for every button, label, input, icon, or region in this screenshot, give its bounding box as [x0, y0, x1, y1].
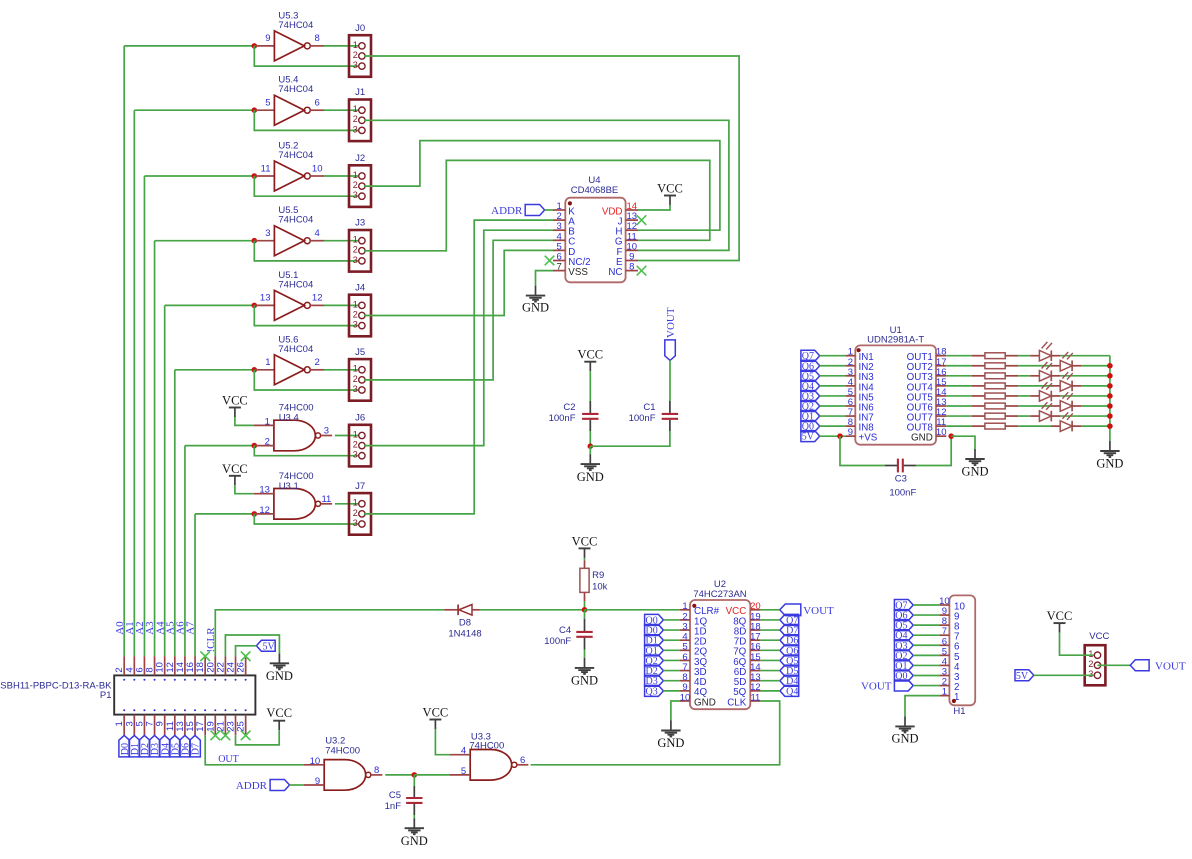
svg-text:J3: J3 [355, 218, 365, 229]
svg-text:D8: D8 [459, 618, 471, 629]
svg-text:U3.1: U3.1 [279, 481, 299, 492]
junction below C2 [588, 443, 594, 449]
svg-text:3: 3 [353, 60, 358, 70]
label Q0 at U2 pin 2 [645, 614, 664, 625]
svg-text:C3: C3 [895, 474, 907, 485]
svg-text:OUT: OUT [218, 754, 239, 765]
wire Q5 to H1 pin 8 [913, 624, 939, 626]
svg-text:GND: GND [657, 736, 684, 750]
wire Q3 to U1 pin 5 [820, 395, 846, 397]
wire VOUT to H1 pin 2 [913, 685, 939, 687]
IC U2 (74HC273AN) [690, 600, 750, 709]
svg-text:10: 10 [936, 427, 947, 438]
label Q5 at H1 pin 8 [894, 620, 913, 631]
svg-text:3: 3 [353, 255, 358, 265]
svg-text:74HC04: 74HC04 [278, 84, 313, 95]
svg-text:C2: C2 [563, 402, 575, 413]
label Q5 at U1 pin 3 [801, 370, 820, 381]
power VCC for U3.3 [429, 719, 441, 721]
svg-text:1: 1 [353, 235, 358, 245]
svg-text:74HC00: 74HC00 [325, 746, 360, 757]
svg-text:H1: H1 [953, 706, 965, 717]
wire net A3 (P1 pin 8 to U5.5 input) [154, 241, 156, 657]
svg-text:2: 2 [353, 50, 358, 60]
svg-text:VOUT: VOUT [1155, 660, 1186, 672]
junction on cathode rail [1107, 403, 1113, 409]
wire Q3 to H1 pin 6 [913, 644, 939, 646]
svg-text:2: 2 [353, 245, 358, 255]
connector J2 [349, 165, 371, 207]
label D1 at P1 pin 3 [129, 735, 140, 757]
wire U1 OUT5 to resistor [946, 395, 971, 397]
svg-text:10: 10 [680, 692, 691, 703]
resistor (row 3) [972, 375, 985, 377]
ground at cathode rail [1109, 441, 1111, 451]
junction node A3 [252, 238, 258, 244]
junction at U1 pin 10 (GND) [948, 433, 954, 439]
wire net J1-2 (J1 pin 2 to U4 pin 10) [364, 120, 729, 250]
wire A5 feedback to J5 pin 3 [254, 370, 358, 390]
svg-text:74HC273AN: 74HC273AN [693, 589, 746, 600]
svg-text:4: 4 [461, 746, 466, 757]
svg-text:12: 12 [312, 293, 323, 304]
wire connector pin 2 to VOUT [1098, 664, 1131, 666]
svg-text:5V: 5V [262, 641, 275, 652]
svg-text:VCC: VCC [423, 706, 449, 720]
connector P1 (SBH11-PBPC-D13-RA-BK) [114, 675, 255, 714]
wire D2 to U2 pin 7 [663, 670, 680, 672]
svg-text:1N4148: 1N4148 [448, 629, 481, 640]
svg-text:VOUT: VOUT [803, 605, 834, 617]
wire Q7 to U1 pin 1 [820, 355, 846, 357]
svg-text:3: 3 [353, 518, 358, 528]
wire LED to cathode rail [1081, 425, 1110, 427]
wire LED cathode rail [1109, 356, 1111, 441]
wire net J7-2 (J7 pin 2 to U4 pin 2) [364, 220, 553, 514]
label Q6 at U2 pin 16 [780, 645, 799, 656]
svg-text:NC: NC [608, 267, 622, 278]
label Q1 at U1 pin 7 [801, 411, 820, 422]
wire Q6 to U1 pin 2 [820, 365, 846, 367]
wire U4 pin 14 to VCC [638, 205, 670, 210]
wire Q7 to U2 pin 19 [760, 619, 780, 621]
svg-text:4: 4 [315, 228, 320, 239]
svg-text:3: 3 [353, 320, 358, 330]
svg-text:VCC: VCC [657, 182, 683, 196]
label D3 at P1 pin 7 [149, 735, 160, 757]
wire net A6 (P1 pin 14 to U3.4 input) [184, 446, 186, 657]
svg-text:Q4: Q4 [786, 686, 798, 697]
svg-text:1: 1 [353, 498, 358, 508]
svg-text:GND: GND [891, 732, 918, 746]
ground at U1 pin 10 [974, 449, 976, 459]
ground below C2 [589, 454, 591, 464]
label Q7 at H1 pin 10 [894, 600, 913, 611]
wire A4 feedback to J4 pin 3 [254, 305, 358, 325]
inverter U5.3 (74HC04) [254, 45, 274, 47]
wire net A7 (P1 pin 16 to U3.1 input) [194, 514, 196, 656]
label D2 at P1 pin 5 [139, 735, 150, 757]
svg-text:1: 1 [353, 40, 358, 50]
svg-text:13: 13 [260, 293, 271, 304]
svg-text:SBH11-PBPC-D13-RA-BK: SBH11-PBPC-D13-RA-BK [0, 681, 112, 692]
label Q7 at U1 pin 1 [801, 350, 820, 361]
svg-text:Q3: Q3 [645, 686, 657, 697]
svg-text:11: 11 [750, 692, 760, 703]
svg-text:C5: C5 [389, 790, 401, 801]
wire net J3-2 (J3 pin 2 to U4 pin 11) [364, 160, 710, 250]
wire D7 to U2 pin 18 [760, 629, 780, 631]
wire net J2-2 (J2 pin 2 to U4 pin 12) [364, 141, 720, 231]
inverter U5.4 (74HC04) [254, 109, 274, 111]
svg-text:1: 1 [353, 104, 358, 114]
junction on cathode rail [1107, 373, 1113, 379]
svg-text:1nF: 1nF [385, 801, 402, 812]
svg-text:GND: GND [1096, 457, 1123, 471]
nand gate U3.2 (74HC00) [324, 760, 366, 791]
LED (row 6) [1051, 405, 1060, 407]
svg-text:13: 13 [259, 485, 270, 496]
wire net J6-2 (J6 pin 2 to U4 pin 3) [364, 230, 553, 445]
svg-text:2: 2 [353, 180, 358, 190]
svg-text:12: 12 [259, 505, 270, 516]
LED (row 7) [1030, 415, 1039, 417]
wire U2 pin 10 to GND [671, 701, 680, 721]
wire net J0-2 (J0 pin 2 to U4 pin 9) [364, 56, 739, 261]
svg-text:74HC04: 74HC04 [278, 344, 313, 355]
LED (row 1) [1030, 355, 1039, 357]
wire P1 pin 24 to 5V [236, 646, 257, 656]
svg-text:GND: GND [522, 301, 549, 315]
wire net A0 (P1 pin 2 to U5.3 input) [123, 46, 125, 656]
junction at C5 [412, 772, 418, 778]
label 5V at connector pin 3 [1015, 670, 1034, 681]
wire D0 to U2 pin 3 [663, 629, 680, 631]
label D2 at U2 pin 7 [645, 665, 664, 676]
ground below U2 [670, 721, 672, 731]
label Q3 at U1 pin 5 [801, 390, 820, 401]
wire U2 pin 20 to VOUT [760, 609, 779, 611]
wire U1 OUT3 to resistor [946, 375, 971, 377]
capacitor C4 100nF [584, 619, 586, 631]
label Q4 at H1 pin 7 [894, 630, 913, 641]
svg-text:A7: A7 [185, 621, 197, 635]
svg-text:11: 11 [321, 494, 331, 505]
svg-text:1: 1 [353, 170, 358, 180]
IC U4 (CD4068BE) [565, 198, 625, 283]
wire +VS junction down to C3 [840, 436, 885, 465]
svg-text:3: 3 [353, 190, 358, 200]
wire U5.2 output to J2 pin 1 [324, 175, 358, 177]
wire resistor to LED [1018, 425, 1051, 427]
svg-text:R9: R9 [592, 570, 604, 581]
label ADDR at U4 pin 1 [525, 205, 544, 216]
wire P1 pin 23 to VCC [236, 730, 280, 745]
wire junction down to ground [589, 446, 591, 454]
svg-text:2: 2 [353, 508, 358, 518]
wire A7 feedback to J7 pin 3 [254, 514, 358, 524]
label 5V at P1 pin 24 [256, 640, 275, 651]
LED (row 3) [1030, 375, 1039, 377]
svg-text:J0: J0 [355, 23, 365, 34]
svg-text:2: 2 [353, 114, 358, 124]
svg-text:!CLR: !CLR [205, 627, 217, 653]
wire net A5 (P1 pin 12 to U5.6 input) [174, 370, 176, 656]
capacitor C2 100nF [589, 401, 591, 413]
wire U1 OUT6 to resistor [946, 405, 971, 407]
wire A1 feedback to J1 pin 3 [254, 110, 358, 130]
svg-text:VCC: VCC [577, 348, 603, 362]
junction node A0 [252, 43, 258, 49]
wire D1 to U2 pin 4 [663, 639, 680, 641]
power VCC above C2 [584, 361, 596, 363]
wire U3.2 output to junction [385, 774, 414, 776]
wire U5.6 output to J5 pin 1 [324, 369, 358, 371]
svg-text:3: 3 [324, 426, 329, 437]
wire resistor to LED [1018, 355, 1030, 357]
ground near P1 [278, 653, 280, 663]
junction on cathode rail [1107, 383, 1113, 389]
ground below U4 [535, 286, 537, 296]
resistor (row 7) [972, 415, 985, 417]
wire Q4 to U2 pin 12 [760, 690, 780, 692]
junction node A7 [252, 511, 258, 517]
svg-text:9: 9 [848, 427, 853, 438]
wire resistor to LED [1018, 405, 1051, 407]
junction node A5 [252, 367, 258, 373]
wire VCC to connector pin 1 [1060, 633, 1095, 656]
wire U4 pin 7 (VSS) to GND [536, 271, 554, 286]
no-connect X P1 pin 21 [221, 731, 231, 741]
svg-text:2: 2 [265, 437, 270, 448]
ground below C4 [584, 658, 586, 668]
label Q2 at U1 pin 6 [801, 401, 820, 412]
junction at U1 pin 9 (+VS) [837, 433, 843, 439]
svg-text:VCC: VCC [1047, 609, 1073, 623]
svg-text:J1: J1 [355, 87, 365, 98]
wire Q5 to U2 pin 15 [760, 659, 780, 661]
wire resistor to LED [1018, 365, 1051, 367]
svg-text:GND: GND [401, 834, 428, 848]
wire VCC to U3.3 pin 4 [435, 729, 450, 755]
svg-text:1: 1 [265, 416, 270, 427]
svg-text:74HC04: 74HC04 [278, 20, 313, 31]
connector J0 [349, 35, 371, 77]
svg-text:GND: GND [911, 433, 933, 444]
capacitor C1 100nF [669, 401, 671, 413]
label D0 at P1 pin 1 [119, 735, 130, 757]
wire U1 OUT2 to resistor [946, 365, 971, 367]
svg-text:2: 2 [353, 309, 358, 319]
wire A3 feedback to J3 pin 3 [254, 241, 358, 261]
svg-text:J5: J5 [355, 347, 365, 358]
label 5V at U1 pin 9 [801, 431, 820, 442]
wire net OUT (P1 pin 17 to U3.2 pin 10) [205, 735, 304, 765]
wire Q5 to U1 pin 3 [820, 375, 846, 377]
power VCC above R9 [579, 547, 591, 549]
wire A2 feedback to J2 pin 3 [254, 176, 358, 196]
svg-text:VSS: VSS [568, 267, 588, 278]
svg-text:GND: GND [571, 673, 598, 687]
LED (row 8) [1051, 425, 1060, 427]
connector J7 [349, 493, 371, 535]
svg-text:J7: J7 [355, 481, 365, 492]
label Q3 at U2 pin 9 [645, 685, 664, 696]
svg-text:C4: C4 [559, 625, 571, 636]
label Q6 at H1 pin 9 [894, 610, 913, 621]
wire VCC to U3.4 pin 1 [235, 417, 254, 425]
svg-text:10k: 10k [592, 581, 608, 592]
wire ADDR to U4 pin 1 [545, 209, 553, 211]
svg-text:26: 26 [236, 662, 247, 673]
wire D4 to U2 pin 13 [760, 680, 780, 682]
svg-text:C1: C1 [643, 402, 655, 413]
label D4 at U2 pin 13 [780, 675, 799, 686]
svg-text:6: 6 [520, 755, 525, 766]
power VCC near P1 [273, 720, 285, 722]
resistor R9 10k [584, 561, 586, 569]
wire U1 OUT7 to resistor [946, 415, 971, 417]
svg-text:2: 2 [353, 374, 358, 384]
wire net !CLR (P1 pin 20 to D8) [215, 610, 444, 656]
svg-text:9: 9 [265, 33, 270, 44]
svg-text:10: 10 [312, 163, 323, 174]
label Q2 at H1 pin 5 [894, 650, 913, 661]
wire Q2 to H1 pin 5 [913, 654, 939, 656]
label Q3 at H1 pin 6 [894, 640, 913, 651]
wire U3.1 output to J7 pin 1 [335, 503, 358, 505]
svg-text:CLK: CLK [727, 697, 747, 708]
label D6 at P1 pin 13 [180, 735, 191, 757]
IC U1 (UDN2981A-T) [855, 345, 936, 444]
LED (row 5) [1030, 395, 1039, 397]
wire resistor to LED [1018, 395, 1030, 397]
no-connect X U4 pin 13 [637, 215, 647, 225]
label Q4 at U1 pin 4 [801, 380, 820, 391]
label D6 at U2 pin 17 [780, 635, 799, 646]
svg-text:74HC00: 74HC00 [469, 740, 504, 751]
svg-text:5V: 5V [802, 432, 815, 443]
wire Q2 to U2 pin 6 [663, 659, 680, 661]
svg-text:VCC: VCC [222, 394, 248, 408]
wire LED to cathode rail [1060, 395, 1110, 397]
junction node A4 [252, 303, 258, 309]
svg-text:3: 3 [353, 450, 358, 460]
svg-text:1: 1 [353, 299, 358, 309]
no-connect X P1 pin 26 [241, 651, 251, 661]
svg-text:GND: GND [961, 465, 988, 479]
inverter U5.1 (74HC04) [254, 304, 274, 306]
wire 5V to connector pin 3 [1034, 674, 1094, 676]
svg-text:25: 25 [236, 721, 247, 732]
resistor (row 5) [972, 395, 985, 397]
svg-text:VCC: VCC [572, 534, 598, 548]
svg-text:74HC04: 74HC04 [278, 150, 313, 161]
svg-text:2: 2 [1088, 659, 1093, 669]
wire U2 pin 11 (CLK) to U3.3 output [531, 701, 780, 765]
svg-text:74HC04: 74HC04 [278, 215, 313, 226]
svg-text:8: 8 [374, 765, 379, 776]
junction on cathode rail [1107, 393, 1113, 399]
wire resistor to LED [1018, 415, 1030, 417]
label D0 at U2 pin 3 [645, 625, 664, 636]
svg-text:3: 3 [1088, 669, 1093, 679]
wire net A1 (P1 pin 4 to U5.4 input) [133, 110, 135, 656]
wire R9 to !CLR net [584, 601, 586, 610]
svg-text:VOUT: VOUT [665, 307, 677, 338]
inverter U5.2 (74HC04) [254, 175, 274, 177]
svg-text:9: 9 [315, 776, 320, 787]
wire LED to cathode rail [1060, 375, 1110, 377]
svg-text:10: 10 [310, 756, 321, 767]
wire A6 feedback to J6 pin 3 [254, 446, 358, 456]
svg-text:3: 3 [353, 124, 358, 134]
junction node A6 [252, 443, 258, 449]
svg-text:2: 2 [353, 440, 358, 450]
junction on cathode rail [1107, 363, 1113, 369]
nand gate U3.4 (74HC00) [274, 420, 315, 451]
wire A0 feedback to J0 pin 3 [254, 46, 358, 66]
wire D5 to U2 pin 14 [760, 670, 780, 672]
wire U5.3 output to J0 pin 1 [324, 45, 358, 47]
wire D6 to U2 pin 17 [760, 639, 780, 641]
wire junction to C1 bottom [590, 431, 670, 446]
wire Q2 to U1 pin 6 [820, 405, 846, 407]
label Q2 at U2 pin 6 [645, 655, 664, 666]
wire VCC to R9 [584, 558, 586, 561]
wire H1 pin 1 to GND [905, 696, 939, 717]
svg-text:2: 2 [315, 357, 320, 368]
wire junction to U3.3 pin 5 [414, 774, 450, 776]
LED (row 2) [1051, 365, 1060, 367]
junction on cathode rail [1107, 423, 1113, 429]
svg-text:8: 8 [629, 262, 634, 273]
resistor (row 8) [972, 425, 985, 427]
wire VCC to U3.1 pin 13 [235, 485, 254, 493]
svg-text:1: 1 [265, 357, 270, 368]
wire D8 to R9 junction [480, 609, 585, 611]
wire U1 pin 10 to GND [951, 436, 975, 449]
label Q0 at H1 pin 3 [894, 670, 913, 681]
label Q6 at U1 pin 2 [801, 360, 820, 371]
wire Q6 to U2 pin 16 [760, 649, 780, 651]
wire Q6 to H1 pin 9 [913, 614, 939, 616]
svg-text:GND: GND [266, 669, 293, 683]
LED (row 4) [1051, 385, 1060, 387]
svg-text:P1: P1 [100, 690, 112, 701]
label D7 at U2 pin 18 [780, 625, 799, 636]
wire Q7 to H1 pin 10 [913, 604, 939, 606]
capacitor C3 100nF (bypass) [885, 465, 897, 467]
power VCC for U3.1 [229, 475, 241, 477]
svg-text:ADDR: ADDR [236, 780, 268, 792]
svg-text:+VS: +VS [859, 433, 878, 444]
wire Q3 to U2 pin 9 [663, 690, 680, 692]
no-connect X U4 pin 8 [637, 266, 647, 276]
wire U3.4 output to J6 pin 1 [335, 435, 358, 437]
label Q7 at U2 pin 19 [780, 614, 799, 625]
svg-text:J6: J6 [355, 413, 365, 424]
resistor (row 6) [972, 405, 985, 407]
svg-text:74HC04: 74HC04 [278, 279, 313, 290]
svg-text:5: 5 [265, 98, 270, 109]
junction node A2 [252, 173, 258, 179]
label Q0 at U1 pin 8 [801, 421, 820, 432]
wire net J5-2 (J5 pin 2 to U4 pin 4) [364, 240, 553, 380]
label VOUT at H1 pin 2 [894, 680, 913, 691]
connector J4 [349, 295, 371, 337]
svg-text:3: 3 [353, 384, 358, 394]
